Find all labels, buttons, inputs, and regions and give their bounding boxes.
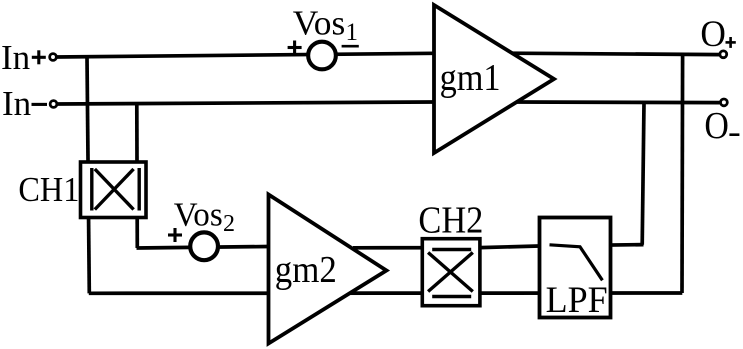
svg-text:In: In [1, 38, 30, 77]
svg-text:CH2: CH2 [418, 200, 483, 242]
svg-text:O: O [700, 14, 726, 55]
svg-text:CH1: CH1 [18, 170, 79, 209]
svg-text:Vos: Vos [174, 196, 223, 233]
svg-text:LPF: LPF [546, 280, 608, 321]
svg-text:gm1: gm1 [440, 57, 501, 99]
svg-text:O: O [704, 105, 729, 147]
svg-text:1: 1 [346, 19, 359, 46]
svg-text:In: In [2, 84, 31, 123]
svg-text:2: 2 [223, 211, 235, 237]
svg-text:gm2: gm2 [275, 249, 337, 291]
svg-text:Vos: Vos [293, 4, 346, 43]
